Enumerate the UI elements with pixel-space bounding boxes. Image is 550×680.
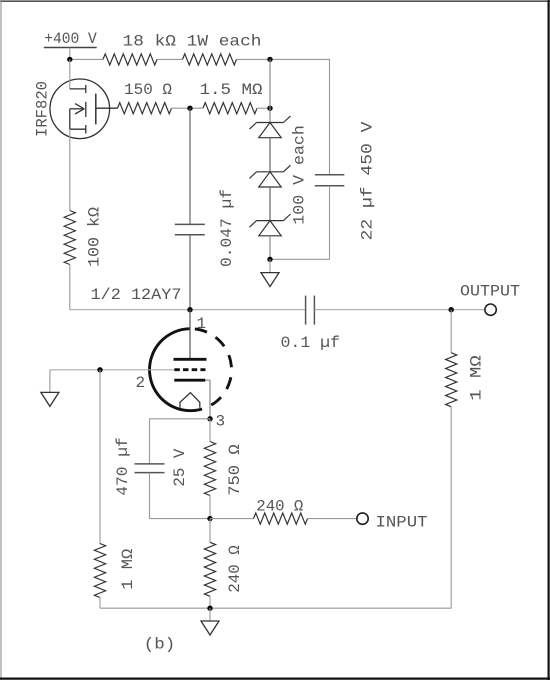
wire 1.5M to zener top xyxy=(257,107,270,109)
wire zener 1-2 xyxy=(269,138,271,172)
wire pin3 to 470uF branch xyxy=(150,419,211,464)
wire 470uF bottom xyxy=(150,473,211,519)
wire cathode step down xyxy=(205,380,210,419)
capacitor 22uF plates xyxy=(315,175,345,186)
wire zener bottom xyxy=(269,236,271,259)
svg-text:240 Ω: 240 Ω xyxy=(256,497,303,515)
node +400V label xyxy=(44,30,97,48)
wire gate node down to 0.047 xyxy=(189,108,191,224)
wire source to 100k xyxy=(69,129,71,210)
wire pin1 to plate xyxy=(189,310,191,358)
wire 240 vertical to bottom xyxy=(209,596,211,608)
resistor 1M left xyxy=(94,544,105,598)
svg-text:0.1 µf: 0.1 µf xyxy=(281,334,341,352)
wire grid node to 1M left xyxy=(99,370,101,545)
svg-text:100 kΩ: 100 kΩ xyxy=(86,207,104,267)
diode zener D2 xyxy=(250,165,291,187)
wire input row left xyxy=(210,518,254,520)
svg-text:0.047 µf: 0.047 µf xyxy=(218,189,236,267)
diode zener D3 xyxy=(250,214,291,236)
svg-text:IRF820: IRF820 xyxy=(33,81,51,137)
tube heater xyxy=(180,393,200,408)
wire grid row xyxy=(50,369,174,371)
junction dot zener top xyxy=(267,106,272,111)
junction dot grid node xyxy=(97,367,102,372)
svg-text:100 V each: 100 V each xyxy=(291,125,309,225)
tube cathode xyxy=(174,379,205,382)
junction dot pin3 xyxy=(207,416,212,421)
wire 22uF bottom xyxy=(270,186,330,259)
svg-text:18 kΩ 1W each: 18 kΩ 1W each xyxy=(123,33,262,51)
ground bottom xyxy=(201,621,219,635)
tube envelope dashed arc xyxy=(190,329,231,410)
tube plate xyxy=(174,358,207,361)
svg-text:25 V: 25 V xyxy=(171,448,189,486)
capacitor 0.1uF plates xyxy=(306,296,315,325)
resistor 100k xyxy=(64,211,75,265)
wire 1M left to bottom rail xyxy=(99,598,101,609)
wire 100k to plate rail xyxy=(69,265,71,310)
terminal OUTPUT circle xyxy=(485,304,496,315)
wire output node to 1M right xyxy=(450,310,452,353)
wire 240 to input terminal xyxy=(308,518,357,520)
resistor 18k #2 xyxy=(183,54,237,65)
wire cathode node to 240 vertical xyxy=(209,519,211,543)
wire plate rail left xyxy=(70,309,306,311)
svg-text:2: 2 xyxy=(136,374,146,392)
resistor 240 input xyxy=(254,513,308,524)
svg-text:750 Ω: 750 Ω xyxy=(226,444,244,496)
svg-text:240 Ω: 240 Ω xyxy=(226,545,244,593)
svg-text:1.5 MΩ: 1.5 MΩ xyxy=(200,81,263,99)
tube grid dashes xyxy=(174,368,205,371)
wire +400V stub xyxy=(69,48,71,60)
junction dot gate node xyxy=(187,106,192,111)
junction dot pin1 xyxy=(187,307,192,312)
svg-text:150 Ω: 150 Ω xyxy=(124,81,172,99)
svg-text:(b): (b) xyxy=(144,636,176,654)
resistor 150 ohm xyxy=(118,103,172,114)
wire 0.1uF to output xyxy=(314,309,485,311)
junction dot +400V xyxy=(67,57,72,62)
capacitor 0.047uF plates xyxy=(175,224,205,234)
svg-text:+400 V: +400 V xyxy=(44,30,97,48)
svg-text:1 MΩ: 1 MΩ xyxy=(119,548,137,589)
junction dot zener bottom xyxy=(267,257,272,262)
wire top rail segment 3 xyxy=(237,58,271,60)
capacitor 470uF plates xyxy=(135,464,165,473)
wire bottom rail xyxy=(100,607,451,609)
wire pin3 to 750 xyxy=(209,419,211,442)
wire zener 2-3 xyxy=(269,187,271,221)
svg-text:INPUT: INPUT xyxy=(376,513,428,531)
wire bottom ground stub xyxy=(209,608,211,621)
resistor 18k #1 xyxy=(103,54,157,65)
wire grid left down xyxy=(49,370,51,393)
wire 150 to junction xyxy=(172,107,204,109)
wire 750 to cathode node xyxy=(209,496,211,519)
ground grid xyxy=(41,392,59,406)
resistor 240 vertical xyxy=(204,542,215,596)
terminal INPUT circle xyxy=(357,513,368,524)
svg-text:1 MΩ: 1 MΩ xyxy=(468,355,486,401)
junction dot bottom xyxy=(207,606,212,611)
wire top rail to 22uF branch xyxy=(270,59,330,174)
junction dot top right xyxy=(267,57,272,62)
wire 0.047 to pin1 junction xyxy=(189,235,191,310)
wire 1M right to bottom rail xyxy=(450,407,452,609)
svg-text:22 µf 450 V: 22 µf 450 V xyxy=(359,121,377,240)
svg-text:OUTPUT: OUTPUT xyxy=(460,283,520,301)
svg-text:1/2 12AY7: 1/2 12AY7 xyxy=(91,286,182,304)
junction dot output node xyxy=(449,307,454,312)
transistor Q1 IRF820 xyxy=(50,59,118,138)
tube U1 1/2 12AY7 envelope solid arc xyxy=(150,329,198,411)
diode zener D1 xyxy=(250,116,291,138)
wire top rail segment 1 xyxy=(70,58,103,60)
resistor 750 xyxy=(204,442,215,496)
svg-text:470 µf: 470 µf xyxy=(114,437,132,496)
resistor 1M right xyxy=(446,353,457,407)
resistor 1.5M xyxy=(203,103,257,114)
junction dot cathode node xyxy=(207,516,212,521)
wire zener stack top xyxy=(269,59,271,122)
svg-text:3: 3 xyxy=(216,413,226,431)
wire top rail segment 2 xyxy=(157,58,183,60)
ground zener xyxy=(261,273,279,287)
wire zener bottom to ground xyxy=(269,259,271,272)
